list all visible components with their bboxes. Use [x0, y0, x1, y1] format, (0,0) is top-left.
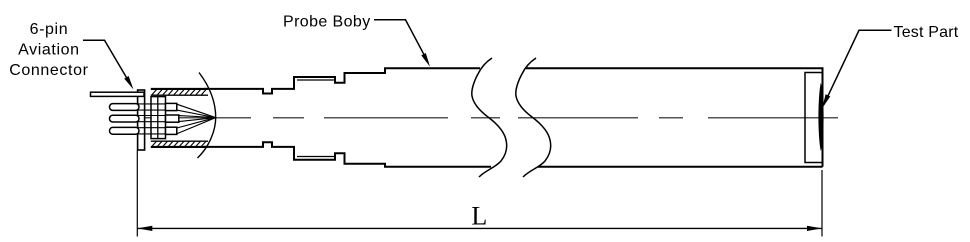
potting boundary arc	[198, 73, 216, 159]
dimension arrow right	[807, 226, 822, 231]
shell bottom band hatching	[152, 141, 206, 146]
probe body top profile	[204, 68, 480, 93]
connector insert block	[151, 97, 166, 139]
shell top band hatching	[152, 90, 206, 95]
insert block vertical line	[157, 97, 159, 139]
probe body bottom line after break	[538, 166, 823, 168]
connector pin 2	[110, 115, 140, 122]
connector pin 3	[110, 127, 140, 134]
svg-text:L: L	[471, 202, 487, 231]
connector pin 1	[110, 104, 140, 111]
socket contact 1	[166, 103, 177, 110]
wires converging to junction	[177, 104, 215, 134]
arrowhead test part leader	[822, 94, 830, 108]
probe body top line after break	[526, 68, 823, 167]
shell top band inner line	[151, 94, 208, 96]
shell bottom section line	[151, 146, 208, 148]
centerline (chain line)	[127, 117, 838, 119]
leader probe body	[374, 20, 428, 62]
extension line right	[821, 170, 823, 237]
svg-text:Probe Boby: Probe Boby	[283, 14, 371, 31]
arrowhead 6-pin leader	[124, 76, 133, 90]
shell top section line	[151, 88, 208, 90]
extension line left	[136, 151, 138, 237]
leader 6-pin connector	[83, 40, 131, 84]
probe body bottom profile	[204, 142, 491, 167]
socket contact 2	[166, 115, 179, 122]
end cap inner outline	[805, 73, 822, 163]
socket contact 3	[166, 127, 177, 134]
dimension line L	[137, 227, 822, 229]
svg-text:Aviation: Aviation	[18, 41, 79, 58]
svg-text:Connector: Connector	[9, 62, 88, 79]
dimension arrow left	[137, 226, 152, 231]
collar inner line bottom	[297, 156, 335, 158]
shell bottom band inner line	[151, 140, 208, 142]
connector flange plate	[138, 90, 145, 150]
break curve 2	[516, 58, 551, 177]
svg-text:6-pin: 6-pin	[30, 21, 69, 38]
collar inner line top	[297, 79, 335, 81]
pin row lines through connector	[138, 104, 166, 134]
arrowhead probe body leader	[421, 53, 430, 67]
connector solder tab	[91, 92, 145, 96]
svg-text:Test Part: Test Part	[894, 24, 959, 41]
break curve 1	[472, 58, 507, 177]
leader test part	[824, 30, 892, 104]
test part contact bar	[818, 83, 823, 151]
